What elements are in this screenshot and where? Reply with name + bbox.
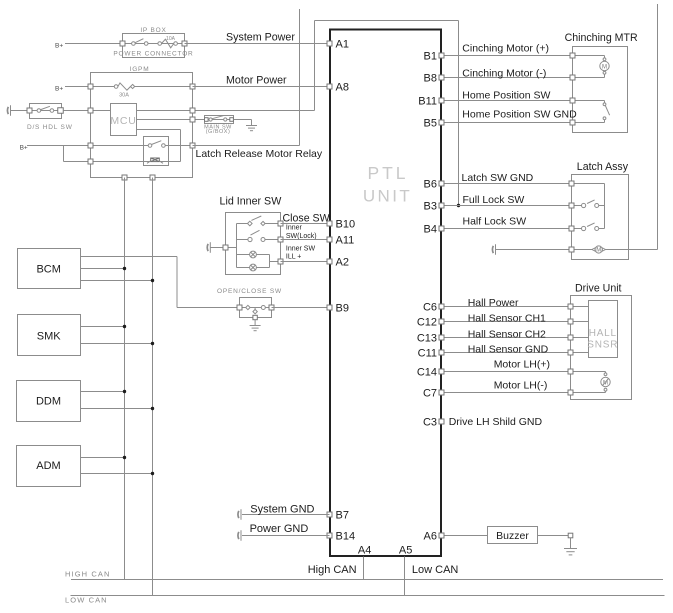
svg-text:B4: B4 bbox=[424, 224, 437, 236]
wire pin A4 to high CAN bbox=[363, 557, 365, 580]
pin squares drive unit bbox=[439, 304, 444, 309]
svg-text:C7: C7 bbox=[423, 388, 437, 400]
wire pin A6 to buzzer bbox=[442, 535, 488, 537]
wire pin A5 to low CAN bbox=[404, 557, 406, 596]
svg-text:ILL +: ILL + bbox=[286, 254, 302, 261]
wire BCM to OPEN/CLOSE SW bbox=[81, 256, 178, 258]
wire D/S HDL SW to MCU bbox=[63, 110, 110, 112]
svg-text:Latch SW GND: Latch SW GND bbox=[462, 172, 534, 184]
svg-text:A5: A5 bbox=[399, 545, 412, 557]
svg-text:Latch Release Motor Relay: Latch Release Motor Relay bbox=[196, 148, 323, 160]
wire to D/S HDL SW bbox=[10, 110, 30, 112]
wire chassis to Lid Inner SW common bbox=[211, 247, 226, 249]
svg-text:High CAN: High CAN bbox=[308, 564, 357, 576]
pin B14 bbox=[327, 533, 332, 538]
lamp ILL 2 bbox=[237, 267, 250, 269]
terminal square IP BOX left bbox=[120, 41, 125, 46]
wire LOW CAN bus bbox=[71, 595, 665, 597]
svg-text:POWER CONNECTOR: POWER CONNECTOR bbox=[113, 50, 193, 57]
wire B+ to IP BOX bbox=[65, 43, 123, 45]
svg-text:Full Lock SW: Full Lock SW bbox=[463, 194, 525, 206]
wire pin C11 hall sensor GND bbox=[442, 352, 571, 354]
relay contact bbox=[148, 144, 152, 148]
svg-text:HIGH CAN: HIGH CAN bbox=[65, 570, 110, 579]
wire B+ to relay contact bbox=[27, 145, 148, 147]
wire HIGH CAN bus bbox=[71, 579, 663, 581]
svg-text:IGPM: IGPM bbox=[130, 66, 150, 73]
wire common to inner bus bbox=[226, 247, 237, 249]
sensor HALL SNSR box bbox=[589, 301, 618, 358]
switch Inner SW(Lock) contacts bbox=[237, 239, 248, 241]
wire pin B5 home position SW GND bbox=[442, 122, 573, 124]
wire ADM high CAN bbox=[81, 457, 125, 459]
wire pin C12 hall sensor CH1 bbox=[442, 321, 571, 323]
svg-text:Power GND: Power GND bbox=[250, 523, 309, 535]
wire System Power to pin A1 bbox=[185, 43, 330, 45]
wire system GND to pin B7 bbox=[242, 514, 330, 516]
svg-text:UNIT: UNIT bbox=[363, 186, 412, 205]
pin C3 drive LH shield GND bbox=[439, 419, 444, 424]
svg-text:B7: B7 bbox=[336, 510, 349, 522]
svg-text:Home Position SW GND: Home Position SW GND bbox=[462, 108, 577, 120]
box IGPM bbox=[91, 73, 193, 178]
wire latch common vertical bbox=[572, 183, 605, 185]
wire pin C7 motor LH(-) bbox=[442, 392, 571, 394]
svg-text:Motor Power: Motor Power bbox=[226, 75, 287, 87]
svg-text:Close SW: Close SW bbox=[283, 213, 330, 225]
switch half lock bbox=[572, 228, 582, 230]
junction dot on Full Lock SW wire bbox=[457, 204, 460, 207]
switch Lid Inner SW box bbox=[226, 213, 281, 275]
svg-text:A8: A8 bbox=[336, 82, 349, 94]
svg-text:A2: A2 bbox=[336, 257, 349, 269]
wire Inner SW to pin A11 bbox=[281, 239, 330, 241]
svg-text:A6: A6 bbox=[424, 531, 437, 543]
pin A2 bbox=[327, 259, 332, 264]
svg-text:System Power: System Power bbox=[226, 31, 295, 43]
switch MAIN SW (G/BOX) bbox=[205, 116, 234, 124]
svg-text:Drive LH Shild GND: Drive LH Shild GND bbox=[449, 416, 543, 428]
pin B10 bbox=[327, 221, 332, 226]
wire inner bus vertical bbox=[236, 224, 238, 268]
wire BCM high CAN bbox=[81, 268, 125, 270]
wire SMK low CAN bbox=[81, 343, 153, 345]
svg-text:C13: C13 bbox=[417, 333, 437, 345]
svg-text:SW(Lock): SW(Lock) bbox=[286, 233, 317, 240]
module Latch Assy box bbox=[572, 175, 629, 260]
pin squares latch bbox=[439, 181, 444, 186]
svg-text:B9: B9 bbox=[336, 303, 349, 315]
svg-text:Cinching Motor (+): Cinching Motor (+) bbox=[462, 43, 549, 55]
svg-text:BCM: BCM bbox=[36, 264, 60, 276]
lamp ILL 1 bbox=[237, 254, 250, 256]
svg-text:IP BOX: IP BOX bbox=[140, 27, 166, 34]
svg-text:System GND: System GND bbox=[250, 503, 314, 515]
module DDM box bbox=[17, 381, 81, 422]
wire OPEN/CLOSE SW to ground bbox=[254, 320, 256, 326]
buzzer box bbox=[488, 527, 538, 544]
svg-text:B10: B10 bbox=[336, 219, 356, 231]
svg-text:Motor LH(-): Motor LH(-) bbox=[494, 380, 548, 392]
wire right riser (to top) bbox=[657, 4, 659, 250]
svg-text:C12: C12 bbox=[417, 317, 437, 329]
chassis terminal Lid Inner SW bbox=[206, 244, 209, 251]
wire ADM low CAN bbox=[81, 473, 153, 475]
wire Close SW to pin B10 bbox=[281, 223, 330, 225]
svg-text:C14: C14 bbox=[417, 367, 437, 379]
pin A1 bbox=[327, 41, 332, 46]
wire DDM low CAN bbox=[81, 408, 153, 410]
ground (MAIN SW) bbox=[246, 125, 257, 127]
wire pin B3 full lock SW bbox=[442, 205, 572, 207]
wire relay to motor-power node bbox=[193, 145, 300, 147]
svg-text:10A: 10A bbox=[166, 36, 176, 42]
svg-text:Latch Assy: Latch Assy bbox=[577, 161, 629, 173]
svg-text:Hall Sensor CH1: Hall Sensor CH1 bbox=[468, 313, 546, 325]
svg-text:ADM: ADM bbox=[36, 460, 60, 472]
wire inside IP BOX bbox=[123, 43, 185, 45]
terminal squares IGPM bottom bbox=[122, 175, 127, 180]
svg-text:B14: B14 bbox=[336, 531, 356, 543]
wire pin C6 hall power bbox=[442, 306, 571, 308]
connector IP BOX / POWER CONNECTOR box bbox=[123, 34, 185, 58]
chassis terminal latch motor bbox=[491, 246, 494, 253]
wire BCM low CAN bbox=[81, 280, 153, 282]
wire pin B8 cinching motor (-) bbox=[442, 77, 573, 79]
wire CAN bus high (vertical) bbox=[124, 178, 126, 580]
relay K1 box bbox=[144, 137, 169, 166]
svg-text:Buzzer: Buzzer bbox=[496, 530, 529, 542]
relay coil bbox=[151, 158, 160, 162]
wire ILL+ to pin A2 bbox=[281, 261, 330, 263]
wire stub up from relay line bbox=[299, 9, 301, 146]
terminal square IP BOX right bbox=[182, 41, 187, 46]
module BCM box bbox=[18, 249, 81, 289]
wire pin B1 to cinching motor (+) bbox=[442, 55, 573, 57]
svg-text:Low CAN: Low CAN bbox=[412, 564, 459, 576]
module SMK box bbox=[18, 315, 81, 356]
pin squares chinching bbox=[439, 53, 444, 58]
svg-text:B+: B+ bbox=[55, 86, 63, 93]
svg-text:M: M bbox=[602, 64, 607, 70]
wire coil to MCU riser bbox=[160, 161, 181, 163]
wire DDM high CAN bbox=[81, 391, 125, 393]
wire MAIN SW to ground bbox=[234, 119, 252, 121]
svg-text:Motor LH(+): Motor LH(+) bbox=[494, 359, 550, 371]
switch full lock bbox=[572, 205, 582, 207]
ground (OPEN/CLOSE SW) bbox=[250, 325, 261, 327]
svg-text:(G/BOX): (G/BOX) bbox=[206, 129, 231, 135]
svg-text:Cinching Motor (-): Cinching Motor (-) bbox=[462, 68, 546, 80]
svg-text:A11: A11 bbox=[336, 235, 355, 247]
wire shield loop around PTL unit bbox=[314, 21, 316, 111]
svg-text:Drive Unit: Drive Unit bbox=[575, 283, 622, 295]
wire latch motor to right riser bbox=[606, 249, 658, 251]
wire CAN bus low (vertical) bbox=[152, 178, 154, 596]
wire motor power inside IGPM bbox=[91, 86, 115, 88]
svg-text:C6: C6 bbox=[423, 302, 437, 314]
ground (buzzer) bbox=[564, 548, 577, 550]
wire power GND to pin B14 bbox=[242, 535, 330, 537]
motor M1 cinching bbox=[573, 55, 605, 57]
svg-text:B+: B+ bbox=[55, 43, 63, 50]
svg-text:B11: B11 bbox=[418, 96, 437, 108]
switch Close SW contacts bbox=[237, 223, 248, 225]
wire MCU output 3 to relay coil bbox=[137, 129, 181, 131]
wire buzzer to ground bbox=[538, 535, 571, 537]
pin B7 bbox=[327, 512, 332, 517]
svg-text:B1: B1 bbox=[424, 51, 437, 63]
svg-text:Hall Power: Hall Power bbox=[468, 297, 519, 309]
svg-text:SMK: SMK bbox=[37, 330, 62, 342]
wire latch motor row bbox=[496, 249, 572, 251]
module Drive Unit box bbox=[571, 296, 632, 400]
svg-text:Hall Sensor CH2: Hall Sensor CH2 bbox=[468, 328, 546, 340]
svg-text:Half Lock SW: Half Lock SW bbox=[463, 216, 527, 228]
switch inside IP BOX bbox=[132, 42, 136, 46]
svg-text:B+: B+ bbox=[20, 144, 28, 151]
switch D/S HDL SW box bbox=[30, 104, 62, 119]
IC PTL UNIT box bbox=[330, 30, 441, 557]
svg-text:Chinching MTR: Chinching MTR bbox=[565, 32, 638, 44]
pin A8 bbox=[327, 84, 332, 89]
svg-text:DDM: DDM bbox=[36, 396, 61, 408]
svg-text:Inner: Inner bbox=[286, 225, 303, 232]
svg-text:C3: C3 bbox=[423, 417, 437, 429]
svg-text:MCU: MCU bbox=[110, 115, 136, 127]
svg-text:OPEN/CLOSE SW: OPEN/CLOSE SW bbox=[217, 288, 282, 295]
terminal circle IP BOX mid bbox=[158, 42, 162, 46]
wire MCU output 1 (to shield loop) bbox=[137, 110, 315, 112]
wire pin B11 home position SW bbox=[442, 100, 573, 102]
wire MCU output 2 to MAIN SW bbox=[137, 119, 205, 121]
svg-text:A4: A4 bbox=[358, 545, 371, 557]
svg-text:SNSR: SNSR bbox=[587, 339, 618, 350]
svg-text:D/S HDL SW: D/S HDL SW bbox=[27, 124, 73, 131]
svg-text:C11: C11 bbox=[418, 348, 437, 360]
svg-text:B8: B8 bbox=[424, 73, 437, 85]
wire relay contact out bbox=[165, 145, 192, 147]
switch home position bbox=[573, 100, 605, 102]
svg-text:Inner SW: Inner SW bbox=[286, 246, 316, 253]
svg-text:HALL: HALL bbox=[589, 328, 617, 339]
module Chinching MTR box bbox=[573, 47, 628, 133]
svg-text:Lid Inner SW: Lid Inner SW bbox=[220, 195, 283, 207]
svg-text:B3: B3 bbox=[424, 201, 437, 213]
chassis terminal system GND bbox=[237, 511, 240, 518]
wire B+ to IGPM bbox=[65, 86, 91, 88]
fuse 10A bbox=[162, 39, 174, 48]
svg-text:Home Position SW: Home Position SW bbox=[462, 89, 550, 101]
pin A11 bbox=[327, 237, 332, 242]
motor M2 latch release bbox=[592, 248, 595, 251]
wire pin C14 motor LH(+) bbox=[442, 371, 571, 373]
wire pin B4 half lock SW bbox=[442, 228, 572, 230]
chassis terminal D/S HDL SW bbox=[6, 107, 9, 114]
svg-text:B6: B6 bbox=[424, 179, 437, 191]
wire pin C13 hall sensor CH2 bbox=[442, 337, 571, 339]
svg-text:M: M bbox=[596, 248, 601, 254]
svg-text:LOW CAN: LOW CAN bbox=[65, 595, 108, 604]
svg-text:B5: B5 bbox=[424, 118, 437, 130]
wire Motor Power to pin A8 bbox=[193, 86, 330, 88]
svg-text:30A: 30A bbox=[119, 92, 129, 98]
switch OPEN/CLOSE SW box bbox=[240, 298, 272, 318]
wire B+ branch to relay coil bbox=[63, 146, 65, 162]
svg-text:PTL: PTL bbox=[367, 163, 408, 183]
wire lamp join bbox=[269, 255, 271, 268]
wire pin B6 latch SW GND bbox=[442, 183, 572, 185]
fuse 30A bbox=[114, 85, 118, 89]
svg-text:A1: A1 bbox=[336, 39, 349, 51]
wire OPEN/CLOSE SW to pin B9 bbox=[272, 307, 330, 309]
IC MCU box bbox=[111, 104, 137, 136]
pin B9 bbox=[327, 305, 332, 310]
motor M3 drive LH bbox=[571, 371, 606, 373]
svg-text:Hall Sensor GND: Hall Sensor GND bbox=[468, 344, 549, 356]
module ADM box bbox=[17, 446, 81, 487]
chassis terminal power GND bbox=[237, 532, 240, 539]
wire SMK high CAN bbox=[81, 326, 125, 328]
